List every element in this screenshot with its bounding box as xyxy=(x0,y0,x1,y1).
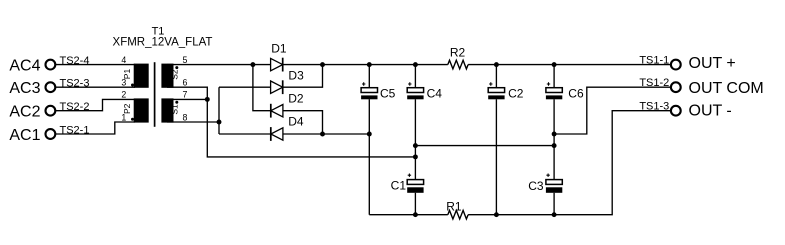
svg-text:D2: D2 xyxy=(288,92,304,106)
terminal AC1 xyxy=(9,124,89,144)
svg-text:8: 8 xyxy=(183,112,188,122)
junction C6 bottom / OUT COM stub xyxy=(552,132,557,137)
wire C4/C1 branch xyxy=(414,65,416,215)
junction C4 bottom lateral xyxy=(413,143,418,148)
svg-text:C6: C6 xyxy=(568,87,584,101)
svg-text:AC4: AC4 xyxy=(9,58,40,75)
T1 pin numbers xyxy=(121,55,187,122)
svg-text:AC2: AC2 xyxy=(9,104,40,121)
terminal AC4 xyxy=(9,55,89,75)
T1 secondary winding S2 xyxy=(161,64,179,88)
junction C2 top rail xyxy=(494,62,499,67)
svg-text:2: 2 xyxy=(121,90,126,100)
svg-text:1: 1 xyxy=(121,112,126,122)
diode D4 xyxy=(271,115,304,141)
junction C4 top rail xyxy=(413,62,418,67)
capacitor C1 xyxy=(391,174,424,193)
wire D1 cathode to + rail xyxy=(283,64,448,66)
svg-text:7: 7 xyxy=(183,90,188,100)
svg-text:3: 3 xyxy=(121,78,126,88)
terminal TS1-1 OUT + xyxy=(639,54,735,72)
terminal TS1-2 OUT COM xyxy=(639,77,763,97)
wire bottom rail left of R1 xyxy=(369,214,448,216)
svg-text:OUT +: OUT + xyxy=(689,55,736,72)
junction COM rail C1 top xyxy=(413,154,418,159)
junction C3 bottom rail xyxy=(552,212,557,217)
wire D4 anode to - node xyxy=(283,133,369,135)
svg-text:D3: D3 xyxy=(288,68,304,82)
svg-text:S2: S2 xyxy=(170,69,180,80)
junction C6 top rail xyxy=(552,62,557,67)
terminal TS1-3 OUT - xyxy=(639,100,731,119)
junction - rail C5 xyxy=(367,132,372,137)
svg-text:OUT -: OUT - xyxy=(689,103,732,120)
svg-text:TS1-2: TS1-2 xyxy=(639,77,669,89)
svg-text:R2: R2 xyxy=(450,46,466,60)
svg-text:6: 6 xyxy=(183,78,188,88)
transformer T1 xyxy=(113,26,213,49)
junction pin 8 / D3-D4 branch xyxy=(217,120,222,125)
resistor R1 xyxy=(446,199,468,219)
T1 primary winding P1 xyxy=(122,64,149,88)
junction COM lateral C6/C3 xyxy=(552,143,557,148)
junction D1 anode / D2 branch xyxy=(250,62,255,67)
wire T1 pin 8 to D3/D4 xyxy=(167,87,271,134)
wire C5 branch and - rail xyxy=(368,65,370,215)
svg-text:C2: C2 xyxy=(508,86,524,100)
wire T1 pin 7 xyxy=(167,98,207,100)
wire bottom rail right of R1 to TS1-3 xyxy=(468,111,671,215)
terminal AC2 xyxy=(9,101,89,121)
svg-text:AC1: AC1 xyxy=(9,127,40,144)
wire AC3 to T1 pin 3 xyxy=(55,86,135,88)
wire T1 pin 6 center tap xyxy=(167,87,415,157)
diode D2 xyxy=(271,92,304,118)
T1 core xyxy=(154,62,156,127)
svg-text:TS1-3: TS1-3 xyxy=(639,100,669,112)
wire D3 cathode up to + rail xyxy=(283,65,323,88)
capacitor C6 xyxy=(546,82,584,100)
svg-text:R1: R1 xyxy=(446,199,462,213)
junction D1/D3 cathodes + rail xyxy=(320,62,325,67)
svg-text:S1: S1 xyxy=(170,104,180,115)
wire COM lateral xyxy=(415,145,554,147)
T1 primary winding P2 xyxy=(122,98,149,122)
junction center tap pins 6-7 xyxy=(205,97,210,102)
diode D1 xyxy=(271,41,287,71)
terminal AC3 xyxy=(9,78,89,98)
capacitor C3 xyxy=(528,174,562,194)
diode D3 xyxy=(271,68,304,94)
svg-text:4: 4 xyxy=(121,55,126,65)
junction C1 bottom rail xyxy=(413,212,418,217)
svg-text:C4: C4 xyxy=(427,86,443,100)
junction C5 top rail xyxy=(367,62,372,67)
wire C2 branch xyxy=(495,65,497,215)
svg-text:XFMR_12VA_FLAT: XFMR_12VA_FLAT xyxy=(113,37,213,49)
wire D2 anode down to - node xyxy=(283,111,323,134)
wire T1 pin 5 to D1/D2 xyxy=(167,65,271,111)
wire AC1 to T1 pin 1 xyxy=(55,122,135,134)
wire AC4 to T1 pin 4 xyxy=(55,64,135,66)
wire C6/C3 branch xyxy=(553,65,555,215)
svg-text:D4: D4 xyxy=(288,115,304,129)
capacitor C2 xyxy=(488,82,524,100)
junction D2/D4 anodes xyxy=(320,132,325,137)
svg-text:C5: C5 xyxy=(380,86,396,100)
svg-text:C3: C3 xyxy=(528,179,544,193)
svg-text:C1: C1 xyxy=(391,179,407,193)
resistor R2 xyxy=(448,46,468,69)
capacitor C5 xyxy=(361,82,396,100)
T1 secondary winding S1 xyxy=(161,98,179,122)
capacitor C4 xyxy=(407,82,442,100)
svg-text:AC3: AC3 xyxy=(9,80,40,97)
junction C2 bottom rail xyxy=(494,212,499,217)
wire COM to TS1-2 xyxy=(554,87,671,134)
wire R2 to TS1-1 xyxy=(468,64,671,66)
wire AC2 to T1 pin 2 xyxy=(55,99,135,110)
svg-text:TS1-1: TS1-1 xyxy=(639,54,669,66)
svg-text:D1: D1 xyxy=(271,41,287,55)
svg-text:5: 5 xyxy=(183,55,188,65)
svg-text:OUT COM: OUT COM xyxy=(689,80,764,97)
